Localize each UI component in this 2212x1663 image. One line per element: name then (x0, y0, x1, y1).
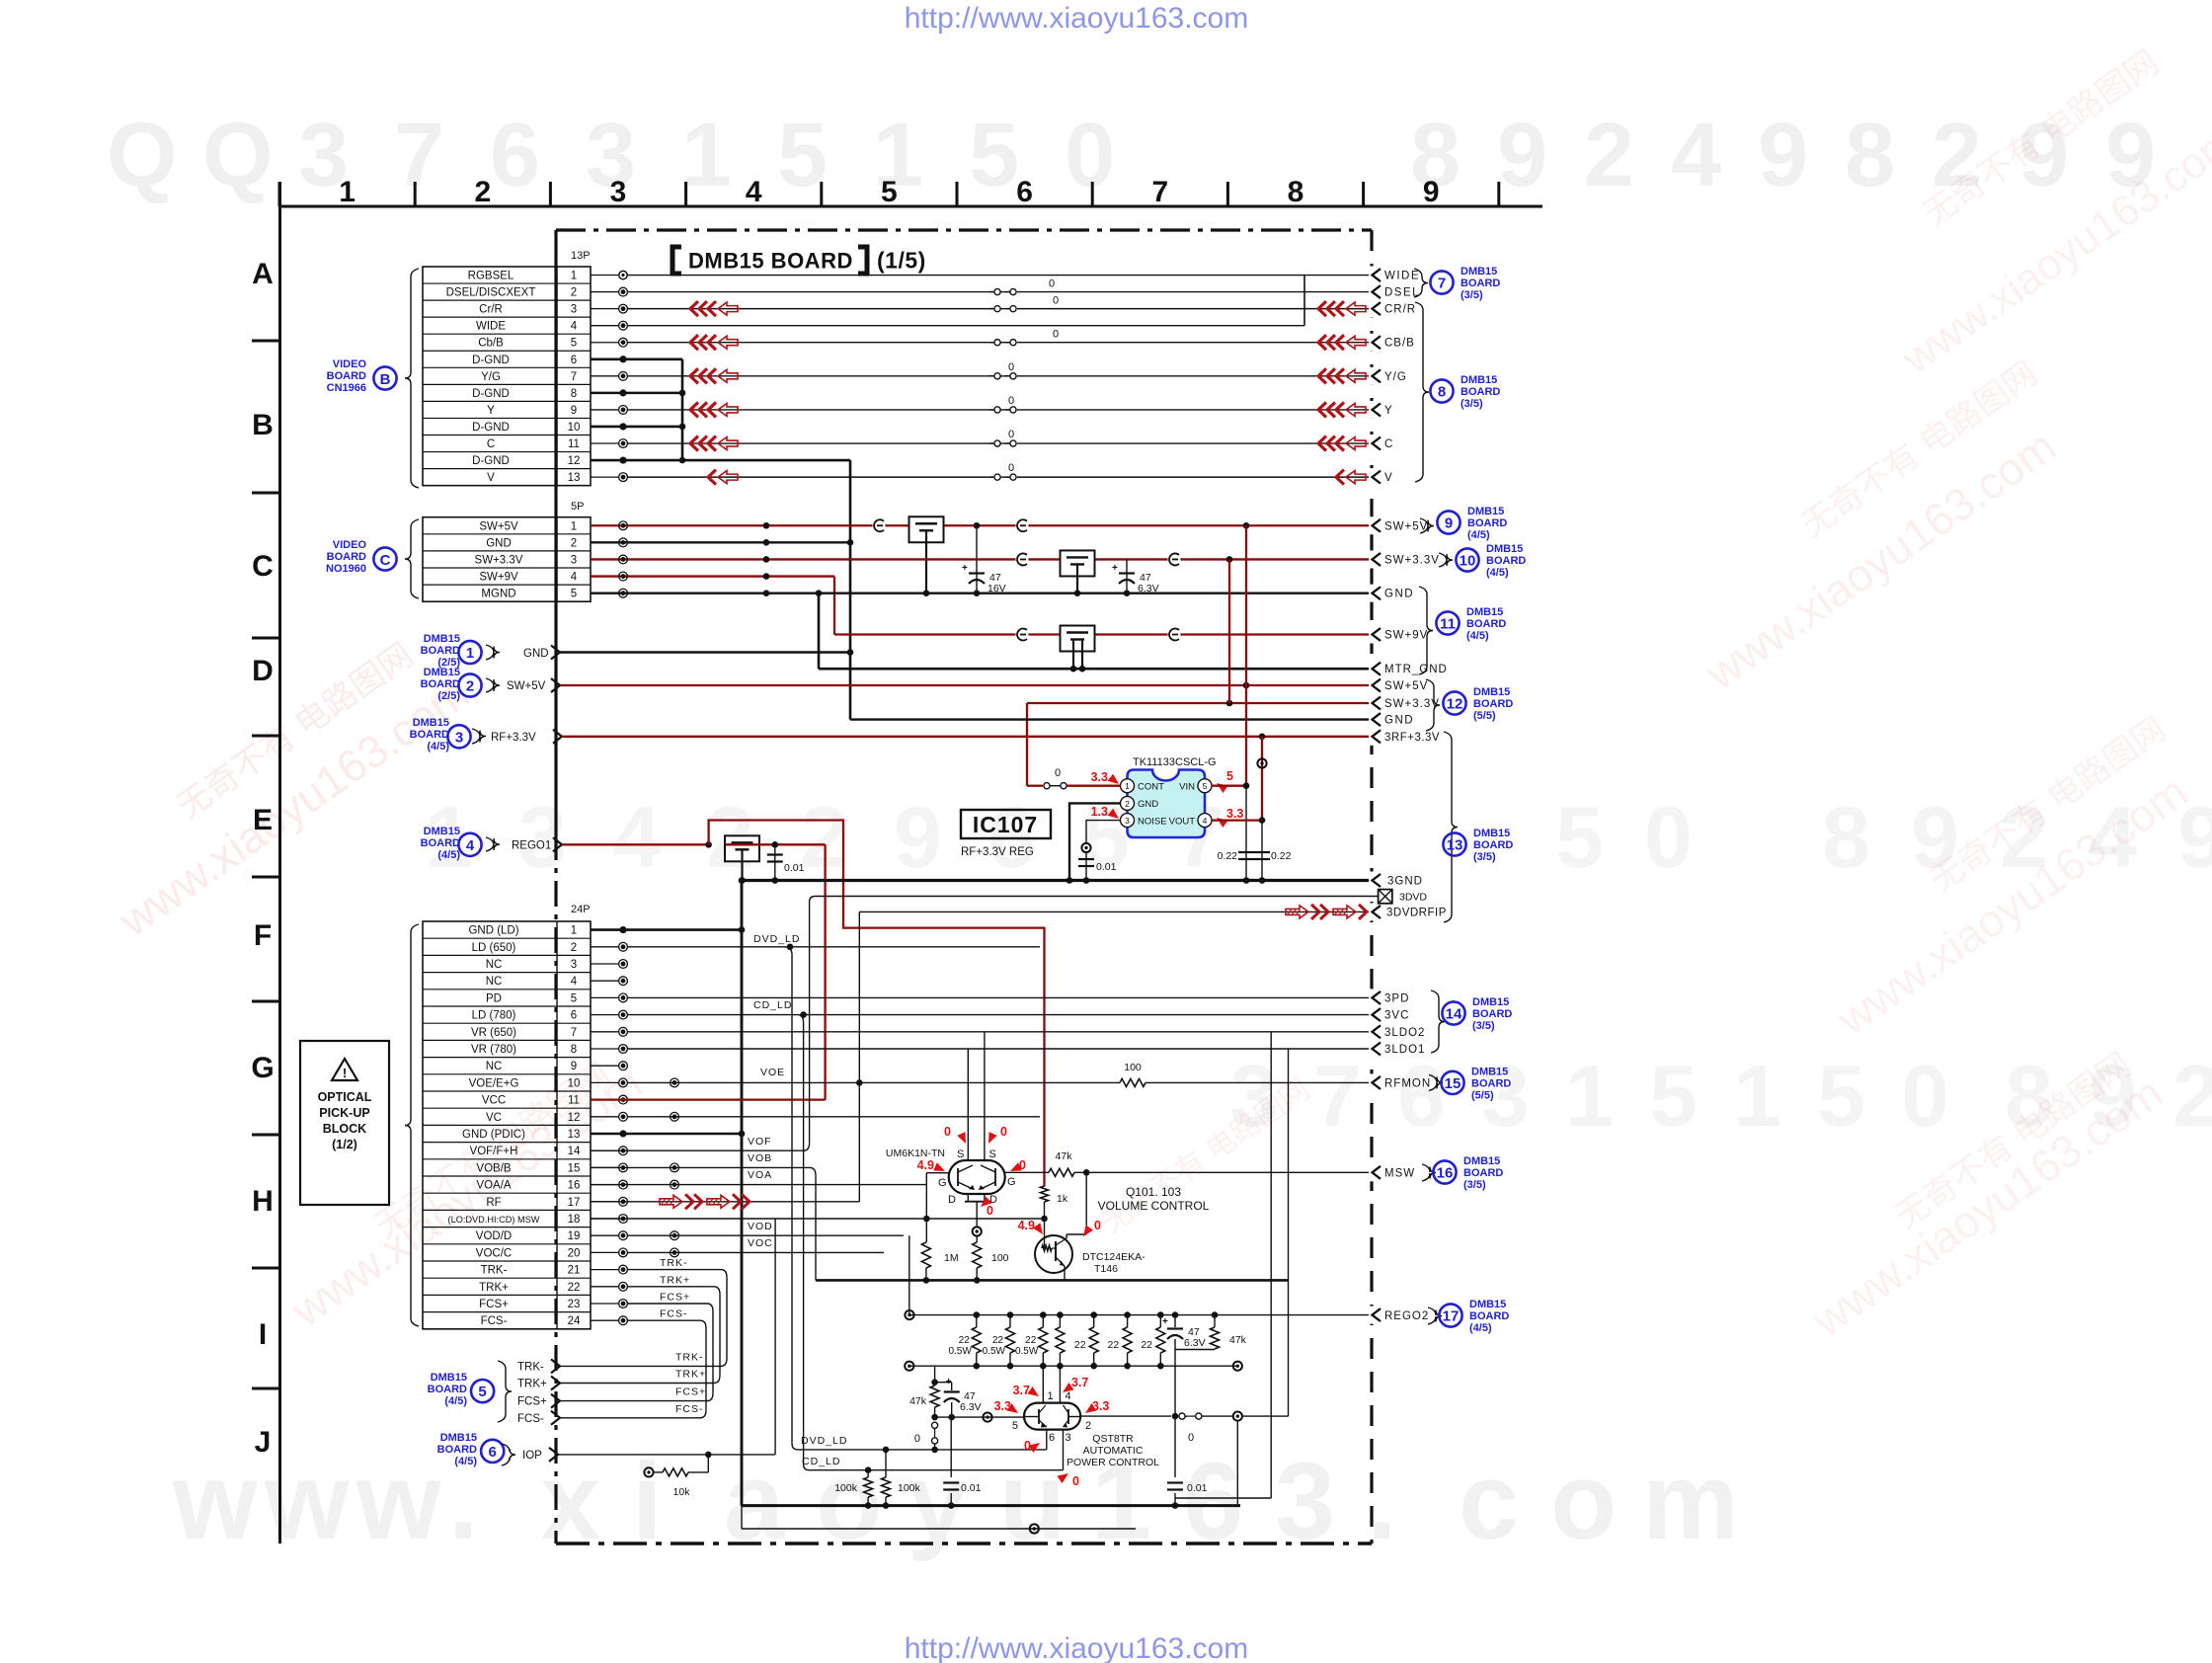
svg-text:7: 7 (571, 1027, 577, 1039)
feedthrough capacitor on SW+9V (1061, 626, 1095, 652)
connector ref circle B (373, 366, 396, 389)
svg-text:0.01: 0.01 (961, 1482, 982, 1494)
brace group 11 (1419, 587, 1433, 674)
svg-text:TRK+: TRK+ (675, 1369, 706, 1381)
feedthrough capacitor on SW+3.3V (1061, 550, 1095, 576)
svg-text:5P: 5P (571, 501, 584, 513)
svg-text:0.5W: 0.5W (948, 1346, 972, 1357)
wire row9 Y (627, 409, 993, 411)
svg-text:4: 4 (1203, 816, 1208, 826)
brace group 9 (1420, 518, 1434, 533)
svg-text:47k: 47k (909, 1395, 927, 1407)
board frame left edge lower (dash-dot) (554, 834, 557, 1544)
svg-text:D: D (948, 1194, 956, 1206)
exit WIDE (1369, 267, 1375, 284)
svg-text:BOARD: BOARD (410, 729, 449, 741)
svg-text:8: 8 (571, 388, 577, 400)
svg-text:0.5W: 0.5W (1015, 1346, 1039, 1357)
svg-text:0.01: 0.01 (1187, 1482, 1208, 1494)
svg-text:GND: GND (1138, 799, 1158, 810)
svg-text:!: ! (343, 1066, 347, 1080)
exit DSEL (1369, 283, 1375, 301)
svg-text:VOD: VOD (748, 1221, 773, 1232)
IC107 pin 5 VIN (1198, 779, 1212, 793)
svg-text:CB/B: CB/B (1384, 338, 1415, 350)
page ref circle 12 (1443, 691, 1465, 714)
wire SW+9V (red) (591, 575, 834, 577)
svg-text:4: 4 (612, 788, 661, 886)
svg-text:FCS+: FCS+ (517, 1396, 547, 1408)
svg-text:OPTICAL: OPTICAL (318, 1090, 372, 1104)
svg-text:6.3V: 6.3V (1184, 1337, 1206, 1349)
svg-text:G: G (1007, 1176, 1016, 1188)
watermark faint digits row A (107, 105, 2156, 205)
capacitor 0.01 on REGO1 (774, 844, 776, 880)
svg-text:3.7: 3.7 (1013, 1384, 1030, 1397)
brace group 10 (1439, 553, 1453, 567)
svg-text:100: 100 (1124, 1062, 1142, 1073)
svg-text:4.9: 4.9 (1018, 1219, 1035, 1232)
IC107 designator box (961, 810, 1051, 838)
svg-text:1: 1 (339, 176, 355, 208)
svg-text:(4/5): (4/5) (1486, 567, 1509, 579)
svg-text:(3/5): (3/5) (1461, 289, 1483, 301)
svg-text:7: 7 (1438, 276, 1446, 292)
svg-text:BOARD: BOARD (421, 837, 460, 849)
pin2 line with 0-ohm jumper (1080, 1415, 1171, 1417)
wire REGO1 entry (red) (562, 843, 709, 845)
svg-text:DMB15: DMB15 (431, 1372, 467, 1384)
svg-text:4: 4 (571, 976, 578, 988)
svg-text:2: 2 (466, 678, 474, 695)
wire NOISE pin3 with 0.01 capacitor (1086, 821, 1121, 844)
svg-text:6: 6 (490, 105, 540, 205)
svg-text:BOARD: BOARD (1472, 1008, 1512, 1020)
svg-text:BOARD: BOARD (1469, 1310, 1509, 1322)
svg-text:0: 0 (1008, 462, 1014, 474)
resistor 10k with test point (644, 1467, 653, 1476)
svg-text:CONT: CONT (1138, 782, 1164, 793)
svg-text:22: 22 (568, 1282, 581, 1294)
svg-text:C: C (1384, 438, 1392, 450)
svg-text:47k: 47k (1056, 1150, 1073, 1162)
wire GND(PDIC) pin13 (591, 1133, 742, 1136)
svg-text:21: 21 (568, 1265, 581, 1277)
svg-text:3: 3 (571, 959, 577, 971)
exit 3LDO1 (1369, 1040, 1375, 1058)
volume area ground line (816, 1279, 1289, 1282)
svg-text:9: 9 (571, 405, 577, 417)
svg-text:23: 23 (568, 1299, 581, 1310)
svg-text:V: V (487, 472, 495, 484)
svg-text:18: 18 (568, 1214, 581, 1226)
svg-text:10: 10 (568, 1077, 581, 1089)
svg-text:o: o (1550, 1441, 1617, 1562)
DTC collector wire (1066, 1234, 1067, 1238)
board title DMB15 BOARD (1/5) (672, 247, 681, 274)
IC107 pin 3 NOISE (1121, 814, 1135, 828)
board frame left edge upper (solid) (554, 230, 557, 834)
svg-text:9: 9 (1758, 105, 1808, 205)
capacitor 0.01 APC right (1174, 1416, 1176, 1477)
svg-text:GND (LD): GND (LD) (468, 925, 518, 937)
svg-text:RF: RF (486, 1197, 501, 1209)
wire RGBSEL / WIDE exit row (627, 275, 1372, 277)
svg-text:7: 7 (1151, 176, 1168, 208)
svg-text:6: 6 (571, 1010, 577, 1022)
svg-text:Y: Y (1384, 405, 1392, 417)
brace group 8 (1415, 302, 1429, 482)
svg-text:C: C (487, 438, 495, 450)
svg-text:2: 2 (1125, 799, 1130, 809)
svg-text:1: 1 (1125, 781, 1130, 791)
svg-text:CR/R: CR/R (1384, 304, 1416, 316)
transistor Q DTC124EKA-T146 (1035, 1235, 1072, 1273)
svg-text:w: w (355, 1441, 441, 1562)
svg-text:9: 9 (1423, 176, 1440, 208)
svg-text:10: 10 (1460, 553, 1476, 570)
FET internals (957, 1168, 959, 1186)
svg-text:3: 3 (571, 554, 577, 566)
riser to ground bus right (1236, 1420, 1238, 1506)
exit SW+5V (1369, 516, 1375, 534)
resistor 100k left (867, 1470, 869, 1477)
via on drain wire (973, 1227, 982, 1235)
svg-text:15: 15 (1445, 1075, 1461, 1092)
wire 3DVD line (816, 896, 1378, 898)
svg-text:6.3V: 6.3V (960, 1401, 982, 1413)
svg-text:REGO2: REGO2 (1384, 1310, 1429, 1322)
svg-text:DVD_LD: DVD_LD (801, 1435, 847, 1447)
svg-text:3.3: 3.3 (1226, 807, 1243, 821)
svg-text:S: S (957, 1148, 964, 1160)
exit CR/R (1369, 300, 1375, 318)
svg-text:10k: 10k (673, 1486, 691, 1498)
svg-text:5: 5 (1012, 1420, 1018, 1432)
svg-text:VIDEO: VIDEO (333, 539, 367, 551)
svg-text:IC107: IC107 (973, 812, 1038, 837)
svg-text:6: 6 (1397, 1047, 1446, 1145)
svg-text:2: 2 (571, 287, 577, 299)
exit MTR_GND (1369, 660, 1375, 677)
wire SW+5V rail (red) (591, 524, 1372, 526)
svg-text:FCS+: FCS+ (660, 1292, 690, 1304)
svg-text:V: V (1384, 472, 1392, 484)
svg-text:14: 14 (568, 1146, 581, 1157)
svg-text:0: 0 (1072, 1474, 1079, 1488)
svg-text:24P: 24P (571, 904, 591, 915)
wire VOUT (red) (1212, 819, 1262, 821)
svg-text:5: 5 (969, 105, 1019, 205)
svg-text:22: 22 (1141, 1339, 1152, 1351)
svg-text:13: 13 (568, 1129, 581, 1141)
svg-text:4.9: 4.9 (917, 1158, 934, 1172)
wire VCC (red) from REGO1 (591, 1098, 826, 1100)
page ref circle 7 (1430, 271, 1453, 293)
wire REGO1 to VCC branch (red) (759, 843, 826, 845)
svg-text:(3/5): (3/5) (1472, 1020, 1495, 1032)
svg-text:DMB15: DMB15 (1466, 606, 1503, 618)
IC107 pin 2 GND (1121, 796, 1135, 810)
svg-text:0: 0 (914, 1433, 920, 1445)
3LDO2 branch riser (1270, 1032, 1272, 1498)
wire VR(780) to 3LDO1 exit (627, 1048, 1372, 1050)
svg-text:SW+5V: SW+5V (1384, 680, 1428, 692)
electrolytic capacitor 47uF 16V (976, 525, 978, 593)
svg-text:15: 15 (568, 1162, 581, 1174)
svg-text:D: D (252, 655, 274, 687)
svg-text:DMB15: DMB15 (1461, 266, 1497, 277)
wire GND(LD) pin1 to ground bus riser (591, 928, 742, 931)
svg-text:BOARD: BOARD (327, 370, 366, 382)
D-GND bus riser x=861 (849, 460, 852, 720)
svg-text:0: 0 (1094, 1219, 1101, 1232)
page ref circle 16 (1433, 1160, 1456, 1183)
svg-text:WIDE: WIDE (1384, 271, 1420, 282)
svg-text:2: 2 (1584, 105, 1634, 205)
svg-text:BOARD: BOARD (1463, 1167, 1503, 1179)
wire SW+3.3V mid rail (red) (1027, 702, 1372, 704)
svg-text:2: 2 (1085, 1420, 1091, 1432)
svg-text:12: 12 (1447, 696, 1463, 713)
svg-text:3: 3 (518, 788, 567, 886)
svg-text:VIDEO: VIDEO (333, 358, 367, 370)
exit RFMON (1369, 1073, 1375, 1091)
svg-text:4: 4 (466, 837, 475, 854)
brace group 13 (1444, 732, 1458, 922)
svg-text:c: c (1459, 1441, 1519, 1562)
svg-text:AUTOMATIC: AUTOMATIC (1083, 1445, 1144, 1457)
svg-text:5: 5 (881, 176, 898, 208)
svg-text:13: 13 (1447, 837, 1463, 854)
riser SW+5V x=1262 (red) (1245, 525, 1247, 785)
svg-text:(3/5): (3/5) (1461, 398, 1483, 410)
svg-text:0: 0 (987, 1204, 993, 1218)
transistor Q101 UM6K1N-TN dual FET body (949, 1160, 1005, 1194)
svg-text:VOA/A: VOA/A (476, 1180, 511, 1192)
svg-text:0.01: 0.01 (1096, 861, 1117, 873)
svg-text:1: 1 (1048, 1390, 1054, 1402)
watermark faint digits row B (425, 788, 2212, 886)
svg-text:(3/5): (3/5) (1463, 1179, 1486, 1191)
svg-text:BOARD: BOARD (1473, 698, 1513, 710)
svg-text:11: 11 (568, 438, 580, 450)
svg-text:1: 1 (1565, 1047, 1614, 1145)
exit 3PD (1369, 989, 1375, 1006)
brace group 16 (1422, 1164, 1436, 1181)
exit CB/B (1369, 334, 1375, 352)
svg-text:D-GND: D-GND (472, 422, 510, 434)
svg-text:0.01: 0.01 (784, 862, 805, 874)
svg-text:+: + (1162, 1316, 1168, 1327)
svg-text:UM6K1N-TN: UM6K1N-TN (886, 1148, 945, 1159)
page ref circle 8 (1430, 379, 1453, 402)
wire RF+3.3V entry to 3RF+3.3V exit (red) (562, 736, 1372, 738)
page ref circle 11 (1436, 611, 1459, 634)
svg-text:DMB15: DMB15 (1461, 374, 1497, 386)
REGO2 top rail (909, 1314, 1372, 1316)
exit 3VC (1369, 1006, 1375, 1024)
svg-text:S: S (989, 1148, 996, 1160)
svg-text:G: G (938, 1177, 947, 1189)
exit 3GND (1369, 872, 1375, 890)
svg-text:(3/5): (3/5) (1473, 851, 1496, 863)
svg-text:1.3: 1.3 (1091, 805, 1108, 819)
svg-text:G: G (251, 1052, 274, 1084)
wire VIN (red) (1212, 785, 1246, 787)
svg-text:1: 1 (1733, 1047, 1781, 1145)
svg-text:0: 0 (1053, 295, 1059, 307)
svg-text:2: 2 (474, 176, 491, 208)
svg-text:16: 16 (568, 1180, 581, 1192)
svg-text:Cr/R: Cr/R (479, 304, 503, 316)
red supply riser into 1k (1041, 1186, 1049, 1202)
svg-text:IOP: IOP (522, 1450, 542, 1462)
FET gate right wire to 47k (1005, 1171, 1049, 1173)
svg-text:5: 5 (1555, 788, 1604, 886)
terminal box 3DVD (1379, 890, 1392, 904)
svg-text:BOARD: BOARD (1486, 555, 1526, 567)
QST8TR pin1 wire to top rail (1042, 1366, 1044, 1402)
svg-text:1k: 1k (1057, 1193, 1068, 1205)
svg-text:3.3: 3.3 (1092, 1399, 1109, 1413)
svg-text:DMB15: DMB15 (424, 826, 460, 837)
svg-text:DMB15: DMB15 (440, 1432, 477, 1444)
svg-text:24: 24 (568, 1315, 581, 1327)
svg-text:VIN: VIN (1179, 782, 1195, 793)
svg-text:DTC124EKA-: DTC124EKA- (1082, 1251, 1145, 1263)
svg-text:Q101. 103: Q101. 103 (1126, 1185, 1181, 1199)
svg-text:4: 4 (571, 321, 578, 333)
exit SW+3.3V (2) (1369, 694, 1375, 712)
FET drain bars (967, 1194, 969, 1202)
svg-text:GND: GND (1384, 715, 1414, 727)
svg-text:(5/5): (5/5) (1473, 710, 1496, 722)
page ref circle 10 (1456, 548, 1478, 571)
svg-text:GND: GND (486, 537, 512, 549)
OPTICAL PICK-UP BLOCK box (300, 1041, 389, 1205)
svg-text:DMB15: DMB15 (424, 667, 460, 678)
svg-text:C: C (380, 552, 391, 569)
svg-text:4: 4 (571, 572, 578, 584)
svg-text:Cb/B: Cb/B (478, 338, 504, 350)
svg-text:FCS-: FCS- (675, 1403, 704, 1415)
svg-text:3: 3 (610, 176, 627, 208)
page ref circle 17 (1439, 1304, 1461, 1326)
svg-text:NO1960: NO1960 (326, 563, 366, 575)
svg-text:8: 8 (1288, 176, 1304, 208)
svg-text:CN1966: CN1966 (327, 382, 366, 394)
svg-text:BOARD: BOARD (1461, 386, 1500, 398)
svg-text:0: 0 (944, 1125, 951, 1139)
svg-text:3.7: 3.7 (1071, 1376, 1088, 1389)
svg-text:LD (780): LD (780) (472, 1010, 516, 1022)
svg-text:9: 9 (894, 788, 942, 886)
svg-text:GND: GND (1384, 589, 1414, 600)
electrolytic cap 47uF 6.3V APC left (951, 1383, 953, 1390)
svg-text:+: + (1112, 563, 1118, 574)
wire row2 DSEL with 0-ohm jumper (627, 291, 993, 293)
svg-text:4: 4 (1671, 105, 1721, 205)
svg-text:(LO:DVD.HI:CD) MSW: (LO:DVD.HI:CD) MSW (448, 1215, 540, 1225)
svg-text:0.22: 0.22 (1218, 850, 1238, 862)
brace for 5P table (405, 519, 419, 598)
svg-text:H: H (252, 1185, 274, 1218)
wire 3DVDRFIP with arrows (859, 911, 1372, 912)
capacitor 0.22 at VOUT (1261, 821, 1263, 881)
exit Y/G (1369, 367, 1375, 385)
connector ref circle C (373, 547, 396, 570)
svg-text:http://www.xiaoyu163.com: http://www.xiaoyu163.com (905, 1632, 1249, 1663)
svg-text:1: 1 (571, 925, 577, 937)
svg-text:VOLUME CONTROL: VOLUME CONTROL (1098, 1199, 1210, 1213)
svg-text:(4/5): (4/5) (1469, 1322, 1492, 1334)
svg-text:CD_LD: CD_LD (753, 999, 792, 1011)
svg-text:7: 7 (571, 371, 577, 383)
riser SW+3.3V x=1245 (red) (1228, 559, 1230, 703)
wire GND mid rail (850, 718, 1372, 720)
resistor 100k right (885, 1450, 887, 1477)
svg-text:VOB/B: VOB/B (476, 1162, 511, 1174)
svg-text:w: w (264, 1441, 350, 1562)
svg-text:WIDE: WIDE (476, 321, 506, 333)
svg-text:20: 20 (568, 1247, 581, 1259)
svg-text:0: 0 (1901, 1047, 1949, 1145)
svg-text:22: 22 (1074, 1339, 1086, 1351)
exit GND (1369, 585, 1375, 602)
svg-text:POWER CONTROL: POWER CONTROL (1066, 1457, 1159, 1468)
svg-text:2: 2 (2172, 1047, 2212, 1145)
svg-text:6: 6 (489, 1444, 497, 1461)
svg-text:J: J (255, 1426, 272, 1459)
svg-text:0: 0 (1053, 329, 1059, 341)
svg-text:D-GND: D-GND (472, 388, 510, 400)
svg-text:5: 5 (571, 338, 577, 350)
exit C (1369, 435, 1375, 452)
svg-text:http://www.xiaoyu163.com: http://www.xiaoyu163.com (905, 2, 1249, 35)
wire MSW row (591, 1218, 1045, 1220)
electrolytic capacitor 47uF 6.3V APC (1174, 1315, 1176, 1327)
wire SW+3.3V rail (red) (591, 558, 1372, 560)
svg-text:0: 0 (1008, 361, 1014, 373)
svg-text:5: 5 (571, 589, 577, 600)
svg-text:3: 3 (1125, 816, 1130, 826)
wire IOP entry (557, 1454, 775, 1456)
FET gate left wire (926, 1172, 948, 1174)
resistor 47k APC left (934, 1367, 936, 1383)
svg-text:3DVD: 3DVD (1399, 892, 1427, 904)
wire GND row to bus (591, 541, 850, 543)
svg-text:9: 9 (1445, 515, 1453, 532)
wire PD to 3PD exit (627, 996, 1372, 998)
left ruler line (278, 182, 281, 1544)
svg-text:5: 5 (1226, 769, 1233, 783)
electrolytic capacitor 47uF 6.3V (1126, 559, 1128, 593)
svg-text:MTR_GND: MTR_GND (1384, 664, 1448, 675)
svg-text:(2/5): (2/5) (437, 690, 460, 702)
bottom ground bus (742, 1504, 1240, 1507)
left ruler ticks (252, 340, 280, 343)
wire WIDE riser x=1321 (1303, 276, 1305, 326)
svg-text:BOARD: BOARD (327, 551, 366, 563)
svg-text:Q: Q (107, 105, 178, 205)
wire GND pin2 (1069, 803, 1121, 880)
svg-text:RGBSEL: RGBSEL (468, 271, 514, 282)
QST8TR pin6 wire (1046, 1430, 1048, 1450)
wire row7 Y/G (627, 375, 993, 377)
svg-text:3: 3 (571, 304, 577, 316)
svg-text:13: 13 (568, 472, 581, 484)
